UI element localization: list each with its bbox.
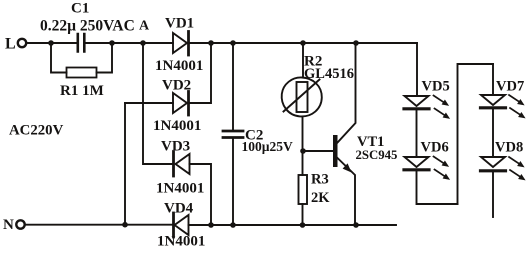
node junction bottom rail x233 <box>230 222 236 228</box>
svg-text:VD2: VD2 <box>162 78 191 94</box>
wire VD6 bottom to second branch riser <box>417 171 458 204</box>
diode VD2 <box>173 93 187 113</box>
svg-text:100µ25V: 100µ25V <box>242 139 294 154</box>
wire R1 right drop <box>97 43 113 73</box>
svg-text:VD1: VD1 <box>165 16 194 32</box>
wire R2 bottom lead <box>302 117 304 152</box>
wire top rail corner down to VD5 <box>416 43 418 96</box>
transistor VT1 base bar <box>333 135 338 167</box>
node junction top rail x356 <box>353 40 359 46</box>
node junction bottom rail x125 <box>122 222 128 228</box>
svg-text:2K: 2K <box>311 190 330 206</box>
svg-text:VD3: VD3 <box>161 139 190 155</box>
svg-text:1N4001: 1N4001 <box>153 118 201 134</box>
capacitor C1 <box>78 34 85 52</box>
wire VD2 cathode up to top rail <box>190 43 212 103</box>
wire node A down to VD3 row <box>143 43 172 164</box>
wire R3 top lead <box>302 151 304 175</box>
svg-text:VD6: VD6 <box>421 140 449 156</box>
node junction C1 right <box>109 40 115 46</box>
transistor VT1 emitter arrow <box>343 163 352 172</box>
svg-text:A: A <box>139 19 150 34</box>
wire top rail L to C1 left plate <box>27 42 78 44</box>
node junction bottom rail x302 <box>300 222 306 228</box>
terminal L <box>18 39 26 47</box>
wire C2 bottom lead <box>232 139 234 226</box>
wire R2 top lead <box>302 43 304 77</box>
node junction base <box>300 148 306 154</box>
node junction C1 left <box>48 40 54 46</box>
svg-text:R1 1M: R1 1M <box>60 83 104 99</box>
wire top rail C1 right plate to VD1 anode <box>85 42 173 44</box>
svg-text:C1: C1 <box>71 1 89 17</box>
wire VD3 anode right then down to DC minus rail <box>190 164 212 225</box>
svg-text:0.22µ 250VAC: 0.22µ 250VAC <box>40 18 135 35</box>
svg-text:AC220V: AC220V <box>9 123 64 139</box>
svg-text:VD5: VD5 <box>422 79 450 95</box>
wire VD7 to VD8 <box>492 109 494 157</box>
resistor R1 <box>67 68 97 78</box>
wire VD2 anode left to corner <box>125 102 173 104</box>
svg-text:1N4001: 1N4001 <box>155 58 203 74</box>
LED VD7 arrow a <box>509 95 525 105</box>
node junction bottom rail x210 <box>208 222 214 228</box>
wire VD5 to VD6 <box>416 110 418 157</box>
wire bottom rail VD4 anode to right end <box>189 224 397 226</box>
svg-text:VD4: VD4 <box>164 201 194 217</box>
LED VD5 <box>405 96 429 106</box>
svg-text:GL4516: GL4516 <box>304 66 354 82</box>
diode VD4 <box>175 215 189 235</box>
wire base <box>303 150 333 152</box>
svg-text:1N4001: 1N4001 <box>156 181 204 197</box>
node A junction <box>140 40 146 46</box>
wire R3 bottom lead <box>302 204 304 225</box>
wire down to VD7 <box>492 64 494 95</box>
LED VD7 arrow b <box>510 108 526 118</box>
capacitor C2 <box>223 130 243 133</box>
node junction top rail x211 <box>208 40 214 46</box>
wire bottom rail N to VD4 bar <box>25 224 174 226</box>
wire top rail VD1 cathode to LED corner <box>189 42 418 44</box>
node junction top rail x233 <box>230 40 236 46</box>
svg-text:L: L <box>5 36 16 53</box>
svg-text:1N4001: 1N4001 <box>157 234 205 250</box>
LED VD6 arrow b <box>435 170 451 180</box>
wire R1 left drop <box>51 43 67 73</box>
transistor VT1 collector <box>338 43 356 143</box>
transistor VT1 emitter <box>338 158 356 225</box>
svg-text:R3: R3 <box>311 172 329 188</box>
LED VD5 arrow b <box>435 109 451 119</box>
photoresistor R2 diagonal stroke <box>284 80 320 112</box>
photoresistor R2 circle <box>282 77 322 116</box>
diode VD1 <box>173 33 187 53</box>
LED VD8 arrow b <box>510 170 526 180</box>
node junction bottom rail x356 <box>353 222 359 228</box>
LED VD5 arrow a <box>434 96 450 106</box>
LED VD8 arrow a <box>509 157 525 167</box>
diode VD3 <box>176 154 190 174</box>
svg-text:N: N <box>3 217 14 233</box>
wire VD8 bottom lead <box>492 173 494 218</box>
node junction top rail x303 <box>300 40 306 46</box>
LED VD7 <box>481 95 505 105</box>
wire C2 top lead <box>232 43 234 130</box>
photoresistor R2 body <box>297 82 308 112</box>
LED VD6 arrow a <box>434 157 450 167</box>
svg-text:VD7: VD7 <box>496 79 524 95</box>
terminal N <box>16 220 24 228</box>
resistor R3 <box>299 175 308 204</box>
LED VD8 <box>481 157 505 167</box>
svg-text:VD8: VD8 <box>495 140 523 156</box>
wire VD2 anode corner down to N rail <box>124 103 126 225</box>
wire second branch riser up and across <box>458 64 494 204</box>
svg-text:2SC945: 2SC945 <box>356 148 398 162</box>
LED VD6 <box>405 157 429 167</box>
